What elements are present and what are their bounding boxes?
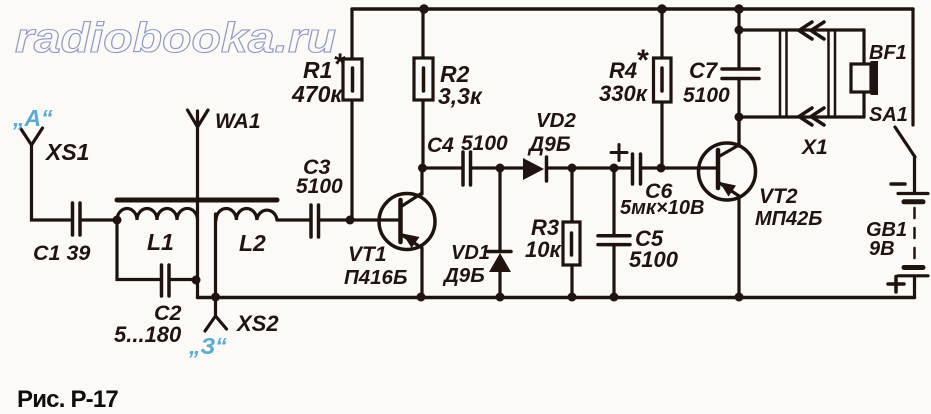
capacitor C4 — [463, 152, 500, 185]
svg-text:5...180: 5...180 — [114, 322, 182, 347]
svg-text:П416Б: П416Б — [344, 266, 407, 289]
wire XS1 to C1 — [32, 219, 71, 220]
junction C4-VD1-VD2 node — [496, 164, 505, 173]
svg-text:C4: C4 — [427, 134, 454, 157]
junction VT2 emitter ground — [735, 293, 744, 302]
svg-text:WA1: WA1 — [215, 110, 261, 133]
svg-text:R4: R4 — [609, 58, 637, 83]
junction VD2-R3 node — [568, 164, 577, 173]
svg-text:Д9Б: Д9Б — [527, 133, 571, 156]
svg-text:VD2: VD2 — [536, 109, 576, 132]
capacitor C3 — [311, 205, 400, 237]
svg-text:C7: C7 — [689, 58, 719, 83]
junction C2 right node — [192, 276, 201, 285]
svg-text:„З“: „З“ — [188, 333, 227, 359]
diode VD2 — [500, 157, 572, 181]
wire tap vertical (antenna to bottom rail) — [196, 203, 199, 297]
svg-text:5100: 5100 — [683, 84, 730, 107]
junction R4-VT2 base node — [657, 164, 666, 173]
svg-text:BF1: BF1 — [869, 42, 907, 64]
svg-text:5100: 5100 — [296, 175, 343, 198]
svg-text:Рис. Р-17: Рис. Р-17 — [17, 386, 118, 413]
label R4* — [609, 44, 649, 83]
junction X1 top wire — [735, 26, 744, 35]
svg-text:*: * — [333, 48, 346, 81]
connector XS2 — [205, 297, 227, 331]
resistor R4 — [654, 9, 672, 168]
diode VD1 — [488, 168, 511, 297]
inductor L1 — [117, 208, 198, 220]
wire top rail — [352, 7, 913, 11]
svg-text:XS1: XS1 — [44, 139, 89, 165]
junction X1 bottom wire / VT2 collector — [735, 113, 744, 122]
junction XS2 ground node — [211, 293, 220, 302]
svg-text:470к: 470к — [291, 81, 343, 107]
resistor R3 — [563, 168, 580, 297]
connector XS1 — [21, 128, 43, 219]
junction C5 ground — [610, 293, 619, 302]
junction R3 ground — [568, 293, 577, 302]
label R1* — [303, 48, 346, 83]
svg-text:L1: L1 — [147, 229, 174, 255]
capacitor C5 — [598, 168, 630, 297]
wire L2 to C3 — [277, 218, 309, 221]
junction R2 top rail — [419, 4, 428, 13]
transistor VT1 — [379, 168, 435, 297]
junction C5 top node — [610, 164, 619, 173]
svg-text:Д9Б: Д9Б — [442, 264, 485, 287]
svg-text:9В: 9В — [869, 238, 895, 260]
earphone BF1 — [851, 61, 878, 95]
switch SA1 — [895, 9, 915, 157]
svg-text:МП42Б: МП42Б — [755, 208, 822, 230]
junction C1-L1-C2 node — [113, 216, 122, 225]
inductor L2 — [216, 209, 277, 220]
junction VT1 collector node — [418, 164, 427, 173]
transistor VT2 — [699, 117, 756, 297]
svg-text:3,3к: 3,3к — [438, 83, 483, 109]
svg-text:X1: X1 — [801, 136, 828, 159]
svg-text:C1 39: C1 39 — [33, 241, 90, 265]
resistor R2 — [414, 9, 433, 168]
svg-text:„А“: „А“ — [12, 105, 53, 131]
resistor R1 — [343, 9, 362, 220]
capacitor C2 — [117, 220, 198, 296]
svg-text:SA1: SA1 — [869, 104, 908, 126]
connector X1 — [739, 22, 864, 125]
battery GB1 — [888, 157, 928, 297]
wire bottom rail — [198, 296, 915, 300]
junction VT1 emitter ground — [417, 293, 426, 302]
wire L2 left leg — [214, 214, 217, 297]
capacitor C6 — [611, 145, 717, 185]
svg-text:330к: 330к — [599, 81, 649, 106]
wire collector node to C4 — [423, 166, 462, 169]
svg-text:*: * — [636, 44, 649, 77]
svg-text:5мк×10В: 5мк×10В — [620, 197, 704, 219]
svg-text:VT1: VT1 — [348, 243, 387, 266]
svg-text:R1: R1 — [303, 57, 332, 83]
svg-text:XS2: XS2 — [235, 311, 279, 336]
junction R4 top rail — [657, 4, 666, 13]
svg-text:radiobooka.ru: radiobooka.ru — [15, 14, 336, 61]
ferrite rod — [117, 198, 277, 203]
junction VD1 ground — [496, 293, 505, 302]
junction C7 top rail — [734, 4, 743, 13]
capacitor C1 — [73, 203, 118, 235]
svg-text:5100: 5100 — [629, 247, 679, 272]
junction R1-VT1 base node — [346, 216, 355, 225]
wire VD2 node to C6 — [572, 166, 631, 169]
capacitor C7 — [722, 9, 759, 146]
antenna WA1 — [188, 110, 209, 197]
svg-text:VD1: VD1 — [451, 242, 490, 264]
svg-text:L2: L2 — [239, 230, 266, 256]
svg-text:10к: 10к — [525, 237, 562, 262]
svg-text:VT2: VT2 — [759, 185, 798, 208]
svg-text:5100: 5100 — [461, 132, 508, 155]
